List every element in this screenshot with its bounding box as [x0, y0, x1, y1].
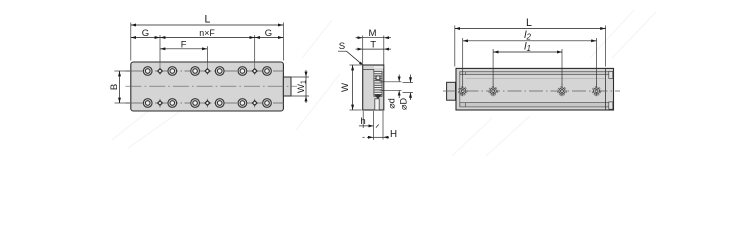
svg-text:l1: l1	[524, 41, 531, 53]
svg-text:W: W	[340, 82, 351, 92]
row centerline bottom	[126, 102, 285, 104]
svg-text:⌀D: ⌀D	[398, 98, 408, 110]
dimension L (right view) extension lines	[455, 26, 606, 67]
dimension L (right view) line	[455, 28, 606, 30]
dimension H line (outside arrows)	[363, 136, 390, 138]
counterbore holes top row	[143, 67, 271, 76]
counterbore holes bottom row	[143, 99, 271, 108]
svg-text:W1: W1	[296, 80, 308, 93]
dimension W1 extension lines	[292, 77, 309, 96]
dimension h extension lines	[363, 111, 373, 140]
thread stripes	[374, 74, 382, 95]
svg-text:G: G	[265, 28, 272, 39]
hole 4	[592, 84, 601, 97]
dimension B line	[119, 71, 121, 103]
dimension W extension lines	[350, 65, 362, 110]
screw cross detail	[375, 75, 380, 80]
dimension W1 line with outside arrows	[305, 70, 307, 103]
dimension L (left view) line	[131, 24, 284, 26]
bore column (threaded section)	[374, 72, 382, 97]
dimension D line (outside arrows)	[410, 75, 412, 101]
right groove end block bottom	[609, 102, 613, 109]
left end cap line	[459, 72, 461, 107]
dimension l2 line	[463, 40, 597, 42]
column centerline 1	[159, 62, 161, 108]
body plate	[131, 62, 284, 111]
lower pilot hole	[375, 99, 379, 110]
dimension B extension lines	[115, 71, 130, 103]
dimension l1 extension lines	[493, 49, 562, 85]
dimension l1 line	[493, 51, 562, 53]
right groove end block top	[609, 71, 613, 78]
column centerline 3	[254, 62, 256, 108]
dimension M line (outside arrows)	[356, 37, 392, 39]
diamond pin holes top row	[158, 69, 257, 74]
break tick on h dimension	[376, 125, 379, 128]
left stopper tab	[447, 82, 456, 100]
column centerline 2	[206, 62, 208, 108]
bottom groove band	[460, 103, 609, 107]
dimension d line (outside arrows)	[398, 75, 400, 99]
step line top	[363, 69, 374, 71]
dimension h line	[359, 125, 374, 127]
side hole lines	[380, 82, 384, 91]
dimension L (left view) extension lines	[131, 23, 284, 61]
extension lines for G/F columns	[160, 35, 255, 62]
svg-text:G: G	[142, 28, 149, 39]
svg-text:l2: l2	[524, 29, 531, 41]
svg-text:M: M	[369, 28, 377, 39]
svg-text:L: L	[526, 17, 532, 29]
dimension M extension lines	[363, 36, 384, 65]
W1 tab on right	[283, 77, 291, 96]
dimension D extension lines	[403, 83, 414, 93]
drill point	[374, 94, 381, 99]
svg-text:L: L	[205, 14, 211, 26]
top highlight band	[374, 66, 383, 68]
faint rail edge line	[466, 77, 606, 79]
svg-text:T: T	[370, 39, 376, 50]
diamond pin holes bottom row	[158, 101, 257, 106]
svg-text:h: h	[360, 116, 365, 127]
svg-text:S: S	[339, 41, 345, 52]
right end internal line	[605, 68, 607, 110]
dimension G / nxF / G line	[131, 37, 284, 39]
svg-text:⌀d: ⌀d	[387, 98, 397, 108]
hole 2	[489, 84, 498, 97]
dimension W line	[352, 65, 354, 110]
section body	[363, 65, 384, 110]
svg-text:B: B	[109, 84, 120, 90]
mid centerline	[126, 85, 298, 87]
hole 3	[558, 84, 567, 97]
svg-text:F: F	[181, 39, 187, 49]
hole 1	[458, 84, 467, 97]
svg-text:n×F: n×F	[199, 28, 215, 38]
rail body	[456, 68, 614, 110]
mid centerline right view	[443, 90, 620, 92]
dimension d extension lines	[382, 82, 402, 91]
row centerline top	[126, 70, 285, 72]
svg-text:H: H	[390, 129, 397, 140]
dimension l2 extension lines	[463, 38, 597, 85]
dimension T line (outside arrows)	[356, 48, 392, 50]
top groove band	[460, 72, 609, 75]
dimension F line	[160, 48, 207, 50]
watermark diagonal faint lines	[112, 10, 656, 156]
dimension H extension lines	[382, 111, 384, 140]
